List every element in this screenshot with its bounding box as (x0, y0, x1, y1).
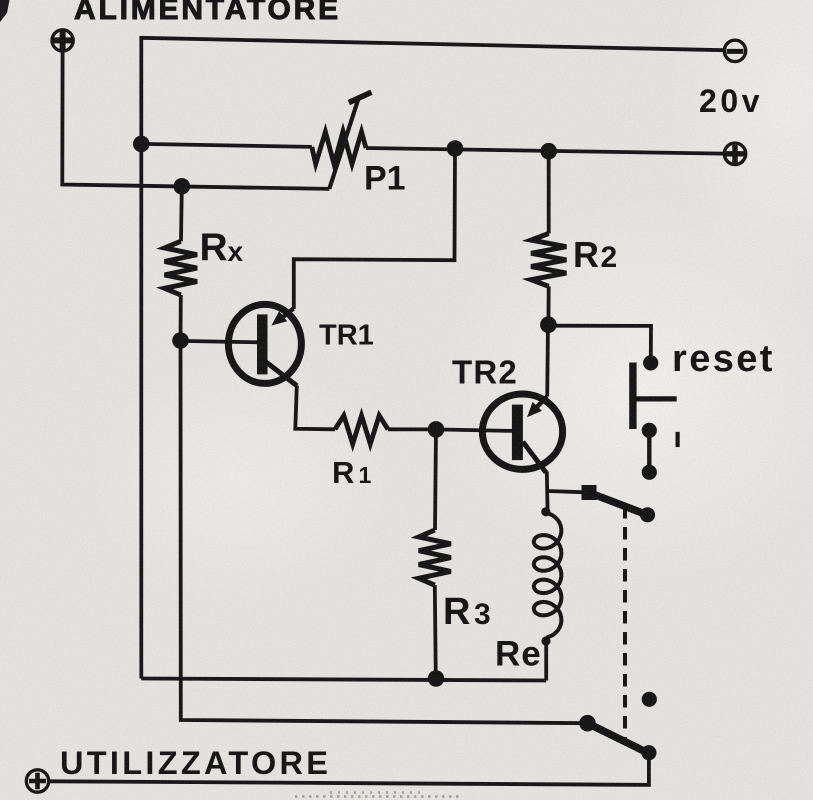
wire second rail left segment (141, 144, 311, 147)
wire from + terminal down and right to P1 wiper (62, 51, 329, 189)
label R1 (332, 455, 372, 490)
label R3 (443, 591, 491, 633)
wire emitter feed TR1 (294, 149, 455, 310)
node Rx top (174, 178, 191, 195)
terminal + bottom-left (26, 770, 48, 792)
wire bottom rail from left vertical to relay coil (141, 679, 546, 681)
wire TR1 collector down to R1 (295, 386, 335, 430)
label R2 (573, 234, 617, 275)
label Rx (200, 226, 244, 269)
relay coil Re (534, 507, 562, 680)
potentiometer P1 zigzag (312, 131, 366, 164)
terminal + right (724, 143, 745, 164)
wire top rail (negative) (141, 38, 723, 50)
wire TR1 base node down to relay arm2 pivot (181, 341, 588, 724)
resistor R3 (419, 429, 451, 678)
transistor TR1 (228, 304, 301, 385)
wire reset lower contact to relay fixed contact (647, 433, 651, 469)
label I (676, 432, 680, 447)
wire left main vertical rail (139, 36, 143, 679)
terminal + top-left (52, 30, 73, 51)
wire R1 to TR2 base node (388, 427, 436, 431)
potentiometer P1 wiper arrow (329, 92, 371, 189)
node R1 / TR2 base / R3 (428, 421, 445, 438)
resistor Rx (165, 186, 197, 340)
node R3 bottom (428, 670, 445, 687)
wire reset feed (548, 326, 651, 357)
transistor TR2 (482, 394, 562, 473)
pushbutton reset (629, 355, 677, 438)
node relay fixed contact 2 (642, 692, 657, 707)
node rail2 TR1 emitter branch (447, 140, 464, 157)
node rail2 R2 top (540, 143, 557, 160)
wire second rail right segment to + terminal (366, 148, 723, 154)
relay contact arm 2 (579, 715, 656, 760)
terminal - top-right (724, 40, 745, 61)
node relay fixed contact 1 (642, 465, 657, 480)
relay contact arm 1 (582, 485, 656, 522)
wire TR1 base lead (186, 341, 259, 342)
wire collector branch to relay arm1 (548, 491, 585, 492)
wire utilizzatore rail up to arm2 tip (50, 757, 649, 785)
wire TR2 base lead (436, 429, 512, 431)
wire TR2 collector down to coil (545, 472, 550, 512)
resistor R1 (335, 416, 388, 445)
resistor R2 (531, 151, 566, 325)
mechanical link dashed (623, 506, 627, 740)
node TR1 base (172, 332, 189, 349)
node R2 bottom / TR2 emitter (540, 316, 557, 333)
node rail2 left corner (133, 136, 150, 153)
wire TR2 emitter (545, 325, 550, 397)
